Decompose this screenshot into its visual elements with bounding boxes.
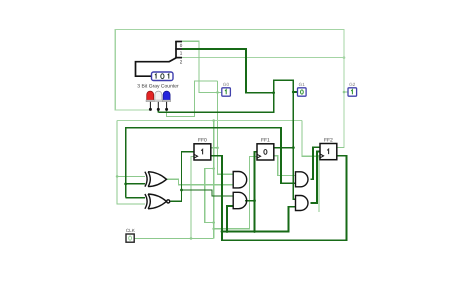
svg-text:FF2: FF2 [324, 137, 333, 143]
wire XOR output to AND1 B [167, 179, 234, 185]
wire FF2 clock riser to bottom rail [318, 156, 320, 212]
wire XNOR branch to AND2 A [182, 190, 234, 196]
svg-text:G0: G0 [223, 82, 230, 87]
svg-text:FF1: FF1 [261, 138, 270, 144]
wire middle LED stub [157, 110, 159, 112]
wire detour loop [205, 169, 214, 223]
wire AND2 out to FF1 D [245, 200, 255, 202]
pin CLK [126, 228, 136, 242]
wire FF2 clock feed [302, 121, 320, 157]
pin G1 [298, 82, 307, 96]
wire XNOR input A [126, 197, 145, 199]
wire FF0 Q output [211, 147, 218, 149]
wire FF1 clock feed [214, 156, 257, 228]
pin G2 [348, 82, 357, 96]
svg-text:CLK: CLK [126, 228, 136, 233]
svg-text:G1: G1 [299, 82, 306, 87]
and gate AND4 [296, 196, 309, 211]
wire AND4 out to FF2 K [311, 152, 321, 204]
LED red (G2) [146, 91, 154, 102]
LED pin stubs and node dots [150, 102, 166, 110]
wire XOR input B [126, 183, 145, 185]
svg-text:FF0: FF0 [198, 138, 207, 144]
flip-flop FF2 [320, 137, 337, 159]
svg-text:G2: G2 [349, 82, 356, 87]
wire FF0 Qbar down x222 around to FF2 Qbar [211, 156, 347, 241]
flip-flop FF1 [257, 138, 274, 160]
wire FF1 Qbar to AND3 A [274, 156, 296, 176]
wire dark G1 net splitter leg1 stair [182, 49, 274, 93]
wire light left feed to XOR A and XNOR B [117, 121, 145, 204]
wire G0 spine from splitter leg0 down to clock rail [182, 41, 222, 92]
wire G1 pin stub [293, 91, 297, 93]
wire FF0 clock riser [191, 156, 194, 238]
wire AND2 B riser [227, 206, 233, 232]
wire clock riser x213.5 [213, 121, 215, 239]
wire G0 vertical x217.5 to AND1 A [218, 81, 234, 174]
splitter and bus (black) [136, 41, 183, 76]
LED middle off (G1) [154, 91, 162, 102]
node G2 junctions [343, 56, 346, 59]
svg-text:1: 1 [180, 51, 183, 56]
xnor gate [145, 194, 170, 209]
probe display 1 0 1 [152, 72, 174, 81]
splitter pin labels [180, 43, 183, 65]
svg-text:3 Bit Gray Counter: 3 Bit Gray Counter [137, 83, 179, 89]
node G0 junctions [216, 91, 219, 94]
wire dark G1 LED rail and riser to AND4 A [158, 80, 295, 199]
wire XNOR output to FF0 J [170, 152, 194, 202]
wire dark rail y231.5 to AND4 B [222, 207, 296, 232]
node G1 junctions [272, 91, 275, 94]
and gate AND1 [233, 172, 247, 188]
wire clock rail upper [117, 120, 302, 122]
wire blue LED riser ladder [167, 81, 218, 116]
wire G2 top frame loop [115, 30, 344, 148]
and gate AND3 [296, 172, 309, 187]
svg-text:0: 0 [180, 43, 183, 48]
wire XOR input A [117, 175, 145, 177]
wire dark rail y127.6 to XOR/XNOR and AND3 B [126, 128, 296, 198]
and gate AND2 [233, 192, 247, 208]
wire FF2 Q stub [337, 147, 344, 149]
wire G2 pin stub [344, 91, 348, 93]
wire AND3 out to FF2 J [311, 147, 321, 179]
flip-flop FF0 [194, 138, 211, 160]
wire CLK bottom rail [135, 237, 214, 239]
LED blue (G0) [162, 91, 170, 102]
wire splitter leg2 to G2 riser [182, 57, 344, 59]
svg-text:2: 2 [180, 59, 183, 64]
wire FF1 Q to G1 riser [274, 147, 293, 149]
pin G0 [222, 82, 231, 96]
xor gate [145, 172, 167, 187]
